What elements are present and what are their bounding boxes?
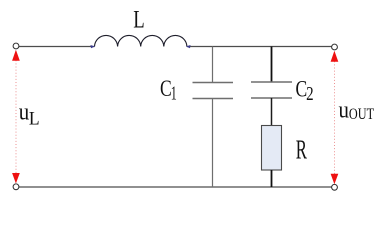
- capacitor C2 top plate: [251, 81, 292, 83]
- label L: [133, 5, 144, 33]
- uL dashed measurement line: [15, 51, 17, 183]
- terminal bottom-right: [332, 184, 338, 190]
- capacitor C2 top lead: [271, 47, 273, 83]
- wire top-left segment: [19, 46, 95, 48]
- uOUT arrow down: [331, 174, 339, 185]
- svg-text:u: u: [19, 98, 29, 125]
- svg-text:2: 2: [306, 82, 313, 105]
- svg-text:L: L: [29, 108, 40, 129]
- svg-text:C: C: [160, 77, 172, 102]
- wire top-right segment: [187, 46, 332, 48]
- resistor R bottom lead: [271, 170, 273, 187]
- terminal top-right: [332, 44, 338, 50]
- svg-text:u: u: [339, 96, 349, 123]
- capacitor C1 bottom plate: [193, 98, 234, 100]
- terminal top-left: [13, 43, 19, 49]
- uL arrow up: [12, 50, 20, 61]
- inductor L coil: [95, 35, 187, 46]
- label R: [296, 135, 307, 165]
- svg-text:1: 1: [171, 81, 177, 104]
- label C1: [160, 77, 172, 102]
- label uL: [19, 98, 29, 125]
- capacitor C1 bottom lead: [212, 99, 214, 188]
- capacitor C2 bottom lead / wire to resistor: [271, 98, 273, 126]
- resistor R body: [262, 126, 282, 171]
- uOUT dashed measurement line: [334, 52, 336, 184]
- capacitor C1 top plate: [193, 82, 234, 84]
- label C2: [296, 77, 308, 102]
- wire bottom: [19, 186, 332, 188]
- uOUT arrow up: [331, 51, 339, 62]
- svg-text:R: R: [296, 135, 307, 165]
- inductor pin arrow left: [91, 45, 96, 48]
- capacitor C1 top lead: [212, 47, 214, 83]
- label uOUT: [339, 96, 349, 123]
- svg-text:L: L: [133, 5, 144, 33]
- svg-text:OUT: OUT: [349, 107, 375, 124]
- terminal bottom-left: [13, 184, 19, 190]
- capacitor C2 bottom plate: [251, 97, 292, 99]
- inductor pin arrow right: [186, 45, 191, 48]
- uL arrow down: [12, 173, 20, 184]
